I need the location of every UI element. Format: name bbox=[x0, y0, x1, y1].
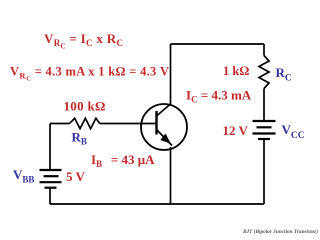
svg-text:BJT (Bipolar Junction Transist: BJT (Bipolar Junction Transistor) bbox=[242, 228, 318, 235]
svg-text:100 kΩ: 100 kΩ bbox=[64, 99, 106, 114]
wire: VBB to bottom rail bbox=[49, 188, 51, 204]
svg-text:RB: RB bbox=[72, 130, 87, 147]
battery VBB plate short bbox=[44, 175, 59, 177]
transistor Q1 emitter diagonal bbox=[157, 130, 173, 146]
battery VCC plate long bbox=[253, 132, 276, 134]
battery VCC plate short bottom bbox=[258, 138, 270, 140]
svg-text:IC = 4.3 mA: IC = 4.3 mA bbox=[186, 88, 252, 105]
wire: bottom rail bbox=[50, 203, 264, 205]
transistor Q1 emitter arrowhead bbox=[161, 134, 170, 143]
transistor Q1 collector diagonal bbox=[157, 104, 172, 117]
wire: emitter vertical bbox=[170, 147, 172, 204]
wire: base left lead bbox=[50, 123, 69, 125]
wire: RC top lead bbox=[263, 44, 265, 56]
wire: top horizontal collector-to-RC bbox=[171, 43, 265, 45]
svg-text:1 kΩ: 1 kΩ bbox=[223, 64, 249, 78]
svg-text:RC: RC bbox=[276, 65, 292, 84]
battery VCC plate long top bbox=[253, 120, 276, 122]
battery VCC plate short bbox=[257, 126, 272, 128]
wire: RC bottom lead to VCC battery bbox=[263, 89, 265, 122]
battery VBB plate short bottom bbox=[45, 187, 57, 189]
transistor Q1 circle bbox=[141, 104, 187, 150]
battery VBB plate long top bbox=[40, 169, 62, 171]
transistor Q1 base bar bbox=[155, 111, 157, 135]
svg-text:VBB: VBB bbox=[13, 167, 34, 184]
svg-text:12 V: 12 V bbox=[223, 123, 249, 138]
svg-text:IB = 43 μA: IB = 43 μA bbox=[91, 152, 155, 169]
wire: base right lead into transistor bbox=[100, 123, 157, 125]
svg-text:VRC = IC x RC: VRC = IC x RC bbox=[44, 31, 123, 50]
resistor R1 1kohm zigzag bbox=[259, 56, 269, 89]
svg-text:VRC = 4.3 mA x 1 kΩ = 4.3 V: VRC = 4.3 mA x 1 kΩ = 4.3 V bbox=[10, 65, 169, 83]
svg-text:VCC: VCC bbox=[282, 122, 305, 141]
svg-text:5 V: 5 V bbox=[66, 169, 86, 184]
battery VBB plate long bbox=[40, 181, 62, 183]
wire: left vertical VBB top bbox=[49, 124, 51, 171]
wire: VCC to bottom rail bbox=[263, 139, 265, 204]
wire: collector vertical bbox=[170, 44, 172, 104]
resistor R2 100kohm zigzag bbox=[69, 118, 99, 128]
